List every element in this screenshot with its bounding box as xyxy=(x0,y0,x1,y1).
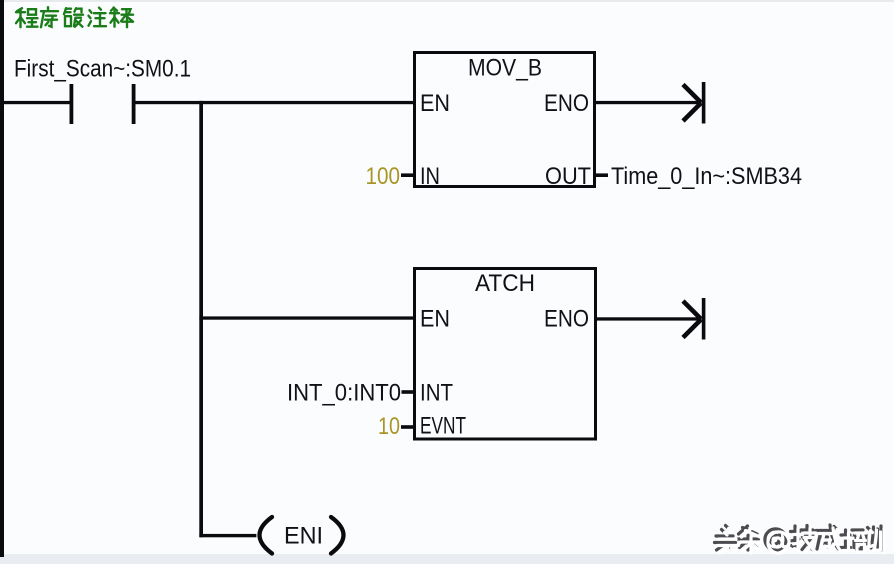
wire: vertical junction branch xyxy=(199,101,203,537)
box MOV_B xyxy=(415,53,595,187)
svg-text:IN: IN xyxy=(420,163,440,190)
char 注 xyxy=(89,8,107,27)
arrow head 1 xyxy=(683,82,705,124)
network comment 程序段注释 (green, drawn strokes) xyxy=(16,7,133,27)
svg-text:ATCH: ATCH xyxy=(475,270,535,297)
svg-text:First_Scan~:SM0.1: First_Scan~:SM0.1 xyxy=(14,56,191,83)
wire: INT stub xyxy=(402,390,415,394)
svg-text:ENO: ENO xyxy=(544,90,589,117)
coil ENI right paren xyxy=(331,517,344,554)
left power rail xyxy=(0,0,4,557)
wire: EVNT stub xyxy=(401,425,415,429)
wire: bottom corner to ENI coil xyxy=(199,534,256,537)
svg-text:MOV_B: MOV_B xyxy=(468,55,542,82)
svg-text:10: 10 xyxy=(378,413,400,440)
svg-text:EVNT: EVNT xyxy=(420,413,466,440)
svg-text:100: 100 xyxy=(366,163,401,190)
wire: contact to MOV_B EN xyxy=(136,101,414,104)
char 段 xyxy=(64,8,83,27)
svg-text:INT_0:INT0: INT_0:INT0 xyxy=(287,380,401,407)
contact right bar xyxy=(132,84,136,124)
wire: 100 to IN stub xyxy=(401,173,415,177)
svg-text:OUT: OUT xyxy=(545,163,591,190)
svg-text:ENI: ENI xyxy=(284,523,323,550)
svg-text:Time_0_In~:SMB34: Time_0_In~:SMB34 xyxy=(611,163,802,190)
arrow head 2 xyxy=(683,298,705,340)
char 释 xyxy=(110,8,133,28)
wire: OUT stub xyxy=(595,173,609,177)
wire: ATCH ENO to arrow xyxy=(596,317,702,320)
char 程 xyxy=(16,8,38,27)
coil ENI left paren xyxy=(260,517,273,554)
svg-text:EN: EN xyxy=(420,306,450,333)
char 序 xyxy=(41,7,58,27)
svg-text:EN: EN xyxy=(420,90,450,117)
svg-text:ENO: ENO xyxy=(544,306,589,333)
wire: MOV_B ENO to arrow xyxy=(595,101,702,104)
watermark 头条@技成培训 xyxy=(715,525,885,553)
svg-text:INT: INT xyxy=(420,380,453,407)
box ATCH xyxy=(415,269,596,440)
bottom gray band xyxy=(0,554,894,564)
wire: branch to ATCH EN xyxy=(199,316,414,319)
wire: rail to contact xyxy=(3,101,70,104)
contact First_Scan~:SM0.1 left bar xyxy=(70,84,74,124)
top edge band xyxy=(0,0,894,2)
